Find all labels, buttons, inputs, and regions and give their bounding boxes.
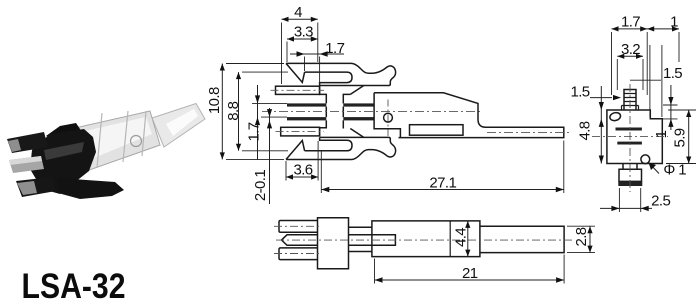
lower pin	[281, 127, 320, 136]
dim 3.2	[617, 55, 643, 57]
svg-text:1.5: 1.5	[570, 84, 589, 101]
svg-text:8.8: 8.8	[225, 101, 242, 120]
svg-text:2.8: 2.8	[573, 227, 590, 246]
bottom view separator	[449, 221, 451, 257]
top pin ribbed	[624, 90, 636, 111]
left extension lines	[226, 64, 288, 160]
svg-text:2-0.1: 2-0.1	[252, 170, 269, 201]
top arm root diagonal	[350, 86, 364, 95]
bottom latch inner slot	[305, 137, 352, 150]
photo bottom arm	[58, 178, 124, 199]
svg-text:5.9: 5.9	[672, 128, 689, 147]
main side view outline	[262, 63, 569, 159]
photo top wing	[46, 123, 82, 142]
dim 4.8 left	[600, 86, 602, 164]
top latch beak	[286, 63, 305, 82]
bottom pin band	[618, 181, 642, 186]
dim 21	[375, 279, 565, 281]
end view (right)	[592, 84, 668, 192]
small hole phi1	[641, 155, 650, 164]
dim 1.7 top	[290, 53, 344, 55]
svg-text:3.3: 3.3	[294, 24, 313, 41]
dim 4	[282, 18, 318, 20]
svg-text:27.1: 27.1	[429, 174, 456, 191]
svg-text:Φ 1: Φ 1	[663, 162, 686, 179]
svg-text:21: 21	[462, 265, 478, 282]
body window	[410, 125, 464, 136]
photo middle pin	[9, 156, 44, 173]
dim 1 right vertical	[670, 85, 672, 130]
bottom view big rect	[372, 221, 480, 257]
bottom view centerlines	[274, 226, 572, 253]
end view horizontal centerline	[592, 135, 668, 137]
end top extension lines	[612, 32, 680, 117]
dim 2.5	[600, 207, 652, 209]
end view vertical centerline	[629, 84, 631, 192]
bottom arm root diagonal	[350, 129, 364, 138]
bottom pin neck	[623, 164, 637, 170]
middle pin lower bar	[287, 117, 326, 120]
bottom latch arm	[286, 137, 396, 159]
photo top prong	[7, 132, 48, 153]
svg-text:1.7: 1.7	[325, 40, 344, 57]
top latch arm	[286, 63, 396, 85]
top pin ribs	[622, 94, 639, 111]
upper pin	[276, 86, 320, 94]
svg-text:4.8: 4.8	[577, 121, 594, 140]
svg-text:1: 1	[653, 130, 670, 138]
svg-text:1: 1	[670, 14, 678, 31]
middle pin upper bar	[287, 103, 326, 106]
bottom pin body	[619, 169, 642, 181]
dim 1.7 end	[612, 28, 680, 30]
svg-text:10.8: 10.8	[206, 87, 223, 114]
svg-text:1.5: 1.5	[663, 65, 682, 82]
central block	[320, 86, 351, 136]
dim 2.8	[589, 226, 591, 252]
photo clear body	[66, 111, 160, 174]
dim 8.8	[238, 72, 240, 151]
photo of LSA-32 connector	[7, 104, 205, 200]
svg-text:3.6: 3.6	[293, 162, 312, 179]
ellipse hole	[609, 112, 621, 122]
extension lines top	[282, 23, 320, 86]
end view body	[607, 110, 662, 164]
body hole	[384, 113, 393, 122]
dim 1 end	[647, 26, 679, 31]
photo circle mark	[131, 136, 142, 147]
bottom view narrow rect	[480, 226, 564, 252]
hole centerline	[387, 100, 389, 137]
bottom view dimensions	[375, 221, 596, 284]
photo housing highlight	[44, 142, 84, 160]
main centerline	[262, 110, 481, 112]
upper pin centerline	[271, 89, 325, 91]
rib bar 2	[617, 142, 642, 145]
bottom view top pin	[279, 221, 318, 233]
dim 4.4	[467, 221, 469, 257]
svg-text:1.7: 1.7	[246, 122, 263, 141]
photo clear tip tube	[152, 104, 205, 148]
dim 27.1	[321, 189, 564, 191]
dim 1.7 left	[257, 85, 259, 160]
svg-text:LSA-32: LSA-32	[22, 267, 126, 306]
dim 2-0.1	[269, 108, 271, 204]
svg-text:1.7: 1.7	[621, 14, 640, 31]
rib bar 1	[616, 128, 642, 131]
svg-text:3.2: 3.2	[621, 41, 640, 58]
body outline	[374, 93, 564, 138]
photo black housing	[30, 129, 96, 194]
dim 5.9	[688, 110, 690, 164]
bottom view bottom pin	[279, 248, 318, 260]
lower pin centerline	[276, 131, 325, 133]
svg-text:2.5: 2.5	[651, 192, 670, 209]
bottom view neck	[349, 227, 372, 251]
svg-text:4.4: 4.4	[453, 228, 470, 247]
end view dimensions	[570, 14, 696, 213]
bottom latch beak	[286, 141, 305, 160]
photo bottom prong	[16, 177, 56, 197]
dim phi1	[649, 163, 660, 174]
top latch inner slot	[305, 72, 352, 85]
bottom extension lines	[286, 141, 564, 194]
dim 3.3	[287, 38, 318, 40]
bottom view middle pin through block	[349, 235, 372, 246]
photo sleeve lines	[97, 111, 146, 168]
bottom view	[274, 218, 572, 269]
dim 10.8	[221, 64, 223, 160]
svg-text:4: 4	[294, 4, 302, 21]
bottom view middle pin	[282, 235, 396, 246]
strip centerline	[487, 131, 569, 133]
main view dimensions	[206, 4, 564, 204]
bottom view central block	[318, 218, 349, 269]
dim 3.6	[286, 176, 318, 178]
